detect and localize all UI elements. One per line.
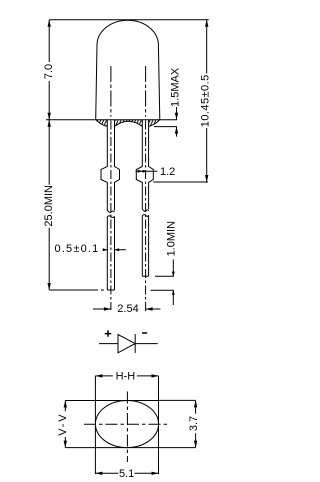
svg-text:1.2: 1.2 — [160, 166, 175, 178]
svg-text:1.0MIN: 1.0MIN — [166, 221, 178, 257]
svg-text:V-V: V-V — [57, 413, 69, 436]
svg-text:1.5MAX: 1.5MAX — [170, 67, 182, 107]
svg-text:7.0: 7.0 — [43, 64, 55, 79]
svg-text:H-H: H-H — [116, 370, 136, 382]
svg-text:3.7: 3.7 — [188, 416, 200, 431]
svg-text:2.54: 2.54 — [117, 303, 138, 315]
svg-text:5.1: 5.1 — [119, 468, 134, 480]
svg-text:0.5±0.1: 0.5±0.1 — [54, 243, 99, 255]
svg-text:10.45±0.5: 10.45±0.5 — [200, 74, 212, 127]
svg-text:25.0MIN: 25.0MIN — [43, 185, 55, 227]
